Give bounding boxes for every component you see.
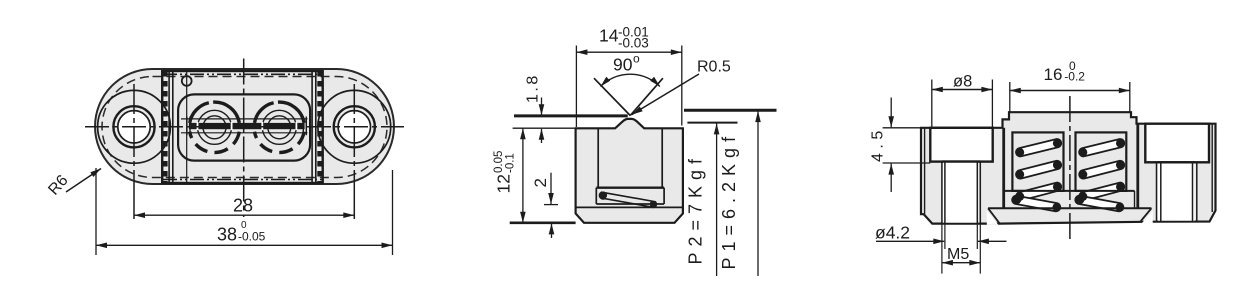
dimension 4.5 [870,98,931,193]
slot outline [178,94,310,160]
dimension diameter 4.2 [875,223,1007,243]
right arm inner edge line [1211,124,1213,212]
apex datum line left [514,114,628,117]
svg-text:-0.2: -0.2 [1064,70,1085,84]
right hole counterbore [334,106,375,147]
center vertical centerline [1069,96,1071,242]
right stud [1157,162,1197,221]
cavity right wall [661,128,663,187]
right hole bore [338,111,370,143]
lower chamber floor [596,203,664,205]
left stud [942,162,980,224]
right spring wire dots [1076,139,1125,212]
left hole counterbore [113,106,154,147]
left hole boss circle [98,90,171,163]
pocket floor line [1004,190,1134,192]
right boss cap [1145,124,1209,163]
dimension 14 -0.01/-0.03 [576,24,681,127]
phantom line top [163,73,322,75]
horizontal centerline [85,126,404,128]
small pin circle [182,76,192,86]
90 degree angle arc [601,74,660,86]
left arm inner edge line [924,128,926,215]
svg-text:16: 16 [1044,65,1063,84]
svg-text:-0.05: -0.05 [238,230,266,244]
svg-text:-0.1: -0.1 [505,153,517,173]
left hole centerline vertical [133,84,135,178]
P2=7Kgf force line [686,123,717,276]
left spring coils [1012,139,1061,211]
channel lower line [181,132,308,134]
central housing rectangle [162,71,323,183]
svg-text:R0.5: R0.5 [697,59,731,76]
svg-text:-0.03: -0.03 [618,36,649,51]
svg-text:28: 28 [233,196,253,216]
stadium body outline [95,69,394,184]
channel upper line [181,118,308,120]
svg-text:P1=6.2Kgf: P1=6.2Kgf [719,131,739,270]
dimension 12 0.05/-0.1 [493,128,576,223]
right hole boss circle [318,90,391,163]
cavity left wall [597,128,599,187]
body block with dome [576,119,683,223]
svg-text:M5: M5 [947,246,969,263]
R0.5 leader [632,59,731,115]
main vertical centerline [243,59,245,218]
block right wall [1136,124,1139,209]
left knurl band [165,71,173,183]
free-height line right long [684,109,777,112]
pin centerline vertical [186,70,188,184]
svg-text:12: 12 [494,174,514,193]
svg-text:ø4.2: ø4.2 [875,223,910,243]
retainer plate [987,208,1153,225]
channel end lines right [303,117,306,136]
svg-text:38: 38 [217,225,237,245]
dimension 16 0/-0.2 [1010,59,1130,112]
cavity floor line [596,186,664,188]
lower chamber right wall [663,188,665,204]
block left wall [1002,128,1005,209]
P1=6.2Kgf force line [719,111,758,276]
svg-text:o: o [633,52,640,66]
svg-text:P2=7Kgf: P2=7Kgf [686,153,706,265]
dark slot bar [189,123,305,129]
left spring cavity [1012,132,1063,191]
svg-text:R6: R6 [45,172,71,199]
left hole bore [118,111,150,143]
housing silhouette [921,112,1216,223]
dimension 1.8 [513,73,576,143]
dimension 28 [134,196,354,216]
svg-text:90: 90 [613,55,633,75]
lower chamber left wall [595,188,597,204]
right hole centerline vertical [353,84,355,178]
right roller circle set [254,102,304,152]
V-groove right flank [630,78,663,115]
dimension M5 [942,224,980,274]
V-groove left flank [594,78,630,115]
leaf spring [599,192,656,208]
svg-text:14: 14 [599,26,619,46]
right knurl band [312,71,320,183]
dimension 2 [531,173,558,238]
left boss cap [930,128,992,162]
dimension diameter 8 [932,72,993,127]
svg-text:2: 2 [531,178,550,187]
svg-text:ø8: ø8 [953,72,972,90]
base step line [576,206,683,208]
svg-text:4.5: 4.5 [870,126,887,162]
left roller circle set [190,102,240,152]
svg-text:1.8: 1.8 [525,73,542,103]
R6 leader [45,169,101,199]
phantom line bottom [163,179,322,181]
pressed line right short [687,122,737,124]
svg-text:0.05: 0.05 [493,151,505,173]
pocket right wall [1134,191,1136,208]
dimension 38 0/-0.05 [96,168,393,255]
channel end lines left [187,117,190,136]
right spring cavity [1076,132,1127,191]
pocket left wall [1003,191,1005,208]
right spring coils [1075,139,1124,211]
left spring wire dots [1012,139,1061,212]
dashed inset stadium outline [102,77,387,178]
